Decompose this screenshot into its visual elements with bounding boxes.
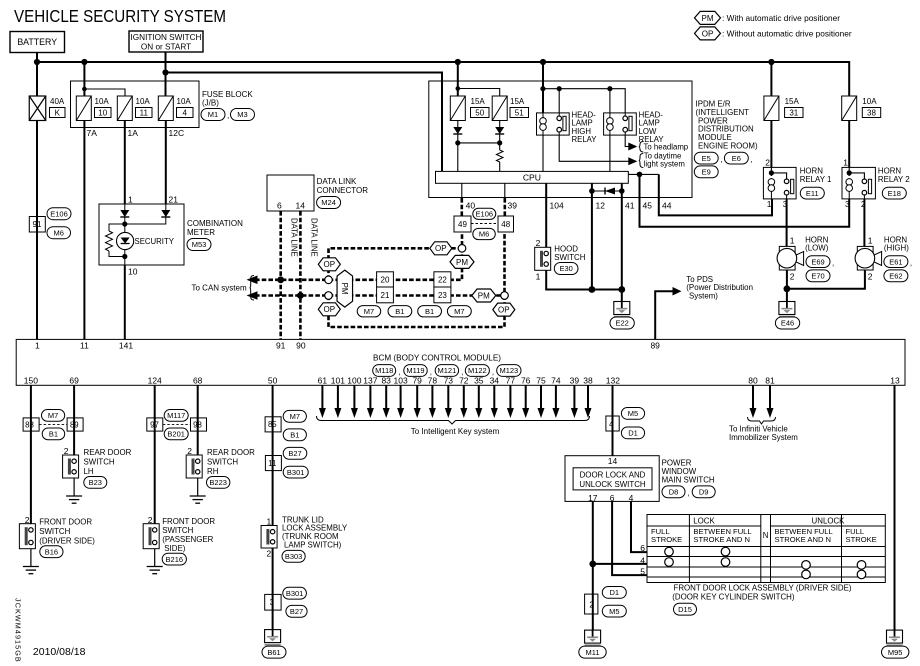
svg-text:To CAN system: To CAN system bbox=[192, 284, 247, 293]
svg-text:137: 137 bbox=[363, 375, 377, 385]
connector labels M7 B1 B1 M7 bbox=[357, 306, 381, 317]
svg-text:77: 77 bbox=[506, 375, 516, 385]
ground front door switch driver bbox=[23, 566, 39, 568]
svg-text:CONNECTOR: CONNECTOR bbox=[317, 186, 369, 195]
wire low relay contact to headlamp arrow bbox=[625, 135, 630, 146]
bracket to intelligent key system bbox=[317, 416, 590, 424]
ground front door switch passenger bbox=[147, 566, 163, 568]
wire rear door switch LH to ground bbox=[73, 478, 75, 496]
CPU box bbox=[436, 171, 629, 183]
svg-text:E70: E70 bbox=[811, 272, 824, 281]
svg-text:RELAY: RELAY bbox=[572, 135, 598, 144]
svg-text:CPU: CPU bbox=[523, 172, 541, 182]
junction bus horn relay 1 feed bbox=[768, 59, 774, 65]
svg-text:M5: M5 bbox=[609, 607, 619, 616]
svg-text:SWITCH: SWITCH bbox=[162, 526, 193, 535]
badge OP on CAN-L bypass bbox=[318, 303, 340, 316]
fuse block J/B box bbox=[71, 81, 200, 128]
svg-text:2: 2 bbox=[266, 549, 271, 559]
wire BCM pin 68 to rear door switch RH bbox=[197, 385, 199, 455]
svg-text:80: 80 bbox=[748, 375, 758, 385]
svg-text:PM: PM bbox=[456, 258, 468, 267]
wire ignition to bus2 and fuse 4 bbox=[165, 52, 167, 96]
svg-text:M5: M5 bbox=[628, 409, 638, 418]
svg-text:E5: E5 bbox=[702, 154, 711, 163]
wire CPU pin 12 to ground rail bbox=[591, 183, 593, 289]
wire BCM pin 124 to front door switch passenger bbox=[154, 385, 156, 523]
svg-text:M117: M117 bbox=[167, 411, 185, 420]
svg-text:103: 103 bbox=[394, 375, 408, 385]
badge OP on CAN-H bypass bbox=[318, 258, 340, 271]
connector box 88 bbox=[23, 418, 39, 431]
svg-text:D1: D1 bbox=[610, 588, 620, 597]
svg-text:4: 4 bbox=[629, 493, 634, 503]
svg-text:10A: 10A bbox=[862, 97, 877, 106]
fuse 38 10A bbox=[842, 96, 857, 121]
svg-text:OP: OP bbox=[435, 244, 447, 253]
svg-text:SWITCH: SWITCH bbox=[84, 458, 115, 467]
connector box 4 bbox=[606, 416, 619, 431]
svg-text:10: 10 bbox=[98, 108, 107, 117]
svg-text:,: , bbox=[832, 259, 834, 268]
svg-text:SWITCH: SWITCH bbox=[207, 458, 238, 467]
svg-text:M7: M7 bbox=[290, 412, 300, 421]
svg-text:97: 97 bbox=[150, 421, 159, 430]
resistor in IPDM bbox=[496, 150, 503, 162]
junction security LED cathode bbox=[122, 254, 127, 259]
svg-text:To Intelligent Key system: To Intelligent Key system bbox=[411, 427, 500, 436]
svg-text:PM: PM bbox=[478, 291, 490, 300]
connector box 49 bbox=[454, 216, 471, 232]
svg-text:RH: RH bbox=[207, 467, 219, 476]
svg-text:(DOOR KEY CYLINDER SWITCH): (DOOR KEY CYLINDER SWITCH) bbox=[672, 593, 795, 602]
svg-text:38: 38 bbox=[583, 375, 593, 385]
ground E46 bbox=[779, 302, 795, 315]
legend badge PM bbox=[695, 11, 721, 24]
fuse 10 10A bbox=[76, 96, 91, 121]
svg-text:DATA LINE: DATA LINE bbox=[290, 218, 299, 257]
svg-text:2010/08/18: 2010/08/18 bbox=[33, 646, 86, 658]
svg-text:10A: 10A bbox=[177, 97, 192, 106]
svg-text:PM: PM bbox=[702, 14, 714, 23]
svg-text:89: 89 bbox=[70, 421, 79, 430]
svg-text:E22: E22 bbox=[615, 319, 628, 328]
svg-text:E61: E61 bbox=[889, 257, 902, 266]
svg-text:12: 12 bbox=[596, 201, 606, 211]
svg-text:STROKE: STROKE bbox=[651, 535, 682, 544]
svg-text:48: 48 bbox=[501, 220, 510, 229]
svg-text:31: 31 bbox=[789, 108, 798, 117]
connector box 48 bbox=[498, 216, 514, 232]
connector box 20 bbox=[377, 272, 394, 287]
svg-text:B223: B223 bbox=[209, 478, 227, 487]
svg-text:METER: METER bbox=[187, 228, 215, 237]
connector box 2 bbox=[585, 594, 598, 614]
wire door lock pin 17 to table row 4 and ground bbox=[592, 501, 594, 594]
svg-text:E18: E18 bbox=[888, 189, 901, 198]
svg-text:21: 21 bbox=[169, 195, 179, 205]
svg-text:76: 76 bbox=[521, 375, 531, 385]
brace to daytime light system bbox=[639, 154, 644, 168]
svg-text:3: 3 bbox=[845, 199, 850, 209]
svg-text:21: 21 bbox=[381, 291, 390, 300]
svg-text:M11: M11 bbox=[585, 648, 599, 657]
svg-text:M6: M6 bbox=[54, 228, 64, 237]
wire fuse 10 to BCM pin 11 bbox=[83, 121, 85, 340]
svg-text:DOOR LOCK AND: DOOR LOCK AND bbox=[580, 471, 646, 480]
horn relay 1 box E11 bbox=[763, 167, 796, 199]
svg-text:N: N bbox=[763, 531, 769, 540]
wire horn high to ground rail bbox=[787, 270, 865, 289]
badge OP on bypass top right bbox=[430, 242, 452, 255]
svg-text:50: 50 bbox=[475, 108, 484, 117]
wire front door switch driver to ground bbox=[30, 549, 32, 567]
junction bus fuse block feed bbox=[81, 59, 87, 65]
svg-text:E62: E62 bbox=[889, 272, 902, 281]
brace to headlamp bbox=[639, 142, 644, 153]
svg-text:15A: 15A bbox=[785, 97, 800, 106]
svg-text:1A: 1A bbox=[128, 128, 139, 138]
ground rear door switch LH bbox=[66, 495, 82, 497]
wire CPU pin 41 to ground rail bbox=[621, 183, 623, 289]
svg-text:: Without automatic drive posi: : Without automatic drive positioner bbox=[722, 29, 852, 39]
svg-text:FRONT DOOR: FRONT DOOR bbox=[162, 517, 215, 526]
svg-text:10: 10 bbox=[128, 267, 138, 277]
svg-text:REAR DOOR: REAR DOOR bbox=[84, 448, 132, 457]
svg-text:(DRIVER SIDE): (DRIVER SIDE) bbox=[39, 537, 95, 546]
wire horn relay1 contact to horn low bbox=[786, 199, 788, 247]
svg-text:BCM (BODY CONTROL MODULE): BCM (BODY CONTROL MODULE) bbox=[373, 354, 501, 363]
svg-text:(J/B): (J/B) bbox=[202, 99, 219, 108]
diode D in combination meter pin1 bbox=[120, 210, 129, 217]
svg-text:79: 79 bbox=[412, 375, 422, 385]
wire door lock pin 4 to table row 6 bbox=[631, 501, 647, 552]
wire fuse 4 to combination meter pin 21 bbox=[165, 121, 167, 205]
svg-text:UNLOCK: UNLOCK bbox=[812, 517, 846, 526]
diode D in combination meter pin21 bbox=[161, 210, 170, 217]
svg-text:72: 72 bbox=[459, 375, 469, 385]
svg-text:4: 4 bbox=[640, 555, 645, 565]
wire trunk lid switch to connector 3 bbox=[272, 548, 274, 594]
svg-text:E69: E69 bbox=[811, 257, 824, 266]
svg-text:2: 2 bbox=[790, 272, 795, 282]
svg-text:1: 1 bbox=[790, 236, 795, 246]
wire BCM pin 69 to rear door switch LH bbox=[73, 385, 75, 455]
connector label D15 bbox=[674, 603, 697, 615]
svg-text:D9: D9 bbox=[699, 488, 709, 497]
svg-text:11: 11 bbox=[80, 341, 89, 351]
CAN-H wire line A to CAN system bbox=[255, 216, 462, 280]
svg-text:39: 39 bbox=[570, 375, 580, 385]
connector box 21 bbox=[377, 287, 394, 303]
svg-text:OP: OP bbox=[702, 29, 714, 38]
junction bus relay rail feed bbox=[540, 59, 546, 65]
relay supply rail in IPDM bbox=[542, 62, 544, 113]
connector box 97 bbox=[147, 418, 163, 431]
junction battery bus bbox=[34, 59, 40, 65]
connector labels E5 E6 E9 bbox=[694, 152, 718, 164]
dashed link 97-98 with labels M117 B201 bbox=[163, 423, 191, 425]
svg-text:M6: M6 bbox=[479, 230, 489, 239]
svg-text:14: 14 bbox=[296, 201, 306, 211]
svg-text:45: 45 bbox=[643, 201, 653, 211]
svg-text:,: , bbox=[910, 259, 912, 268]
svg-text:83: 83 bbox=[381, 375, 391, 385]
svg-text:,: , bbox=[750, 155, 752, 164]
fuse 50 15A bbox=[450, 96, 465, 121]
svg-text:35: 35 bbox=[474, 375, 484, 385]
wire fuse 31 feed bbox=[770, 62, 772, 96]
wire horn low to ground E46 bbox=[786, 270, 788, 302]
svg-text:,: , bbox=[688, 489, 690, 498]
svg-text:M7: M7 bbox=[364, 307, 374, 316]
junction fuse block internal bbox=[82, 87, 87, 92]
svg-text:,: , bbox=[227, 111, 229, 120]
svg-text:1: 1 bbox=[843, 158, 848, 168]
svg-text:23: 23 bbox=[438, 291, 447, 300]
CAN wire DLC pin14 to BCM pin 90 data line bbox=[299, 211, 302, 339]
svg-text:12C: 12C bbox=[169, 128, 185, 138]
svg-text:B303: B303 bbox=[285, 552, 303, 561]
svg-text:124: 124 bbox=[148, 375, 162, 385]
svg-text:M7: M7 bbox=[48, 411, 58, 420]
svg-text:M1: M1 bbox=[208, 110, 218, 119]
svg-text:1: 1 bbox=[536, 272, 541, 282]
svg-text:6: 6 bbox=[277, 201, 282, 211]
to CAN system arrows bbox=[247, 276, 258, 285]
svg-text:50: 50 bbox=[268, 375, 278, 385]
wire pin 44 to horn relay 1 coil bbox=[659, 174, 772, 215]
svg-text:39: 39 bbox=[508, 201, 518, 211]
ground B61 bbox=[265, 630, 281, 643]
wire CPU output to horn relay feeds bbox=[628, 173, 659, 175]
svg-text:D8: D8 bbox=[669, 488, 679, 497]
svg-text:132: 132 bbox=[606, 375, 620, 385]
wire fuse block internal feed bbox=[83, 62, 85, 96]
svg-text:B23: B23 bbox=[89, 478, 102, 487]
svg-text:ENGINE ROOM): ENGINE ROOM) bbox=[698, 142, 758, 151]
ground M11 bbox=[585, 630, 601, 643]
svg-text:68: 68 bbox=[193, 375, 203, 385]
security indicator LED bbox=[117, 232, 134, 249]
fuse 4 10A bbox=[158, 96, 173, 121]
svg-text:49: 49 bbox=[458, 220, 467, 229]
svg-text:51: 51 bbox=[515, 108, 524, 117]
svg-text:40A: 40A bbox=[50, 97, 65, 106]
wire battery bus y62 bbox=[36, 53, 38, 97]
svg-text:M95: M95 bbox=[888, 648, 903, 657]
svg-text:44: 44 bbox=[662, 201, 672, 211]
wire fuse 31 to horn relay 1 pin 2 bbox=[770, 121, 772, 168]
battery B1 box bbox=[10, 32, 65, 53]
resistor R in combination meter bbox=[106, 231, 113, 251]
wire high relay contact to daytime light arrow bbox=[559, 135, 630, 161]
wire 40A fuse to connector 91 to BCM pin 1 bbox=[36, 121, 38, 340]
svg-text:BATTERY: BATTERY bbox=[17, 37, 57, 47]
svg-text:(PASSENGER: (PASSENGER bbox=[162, 535, 213, 544]
svg-text:D15: D15 bbox=[678, 605, 692, 614]
diode under fuse 51 bbox=[495, 127, 504, 134]
svg-text:91: 91 bbox=[276, 341, 286, 351]
svg-text:M121: M121 bbox=[438, 366, 457, 375]
svg-text:PM: PM bbox=[340, 283, 349, 295]
svg-text:M53: M53 bbox=[192, 240, 207, 249]
ground rear door switch RH bbox=[190, 495, 206, 497]
svg-text:41: 41 bbox=[625, 201, 635, 211]
svg-text:1: 1 bbox=[35, 341, 40, 351]
CAN wire DLC pin6 to BCM pin 91 data line bbox=[279, 211, 282, 339]
door lock and unlock switch outer box bbox=[565, 456, 659, 502]
hood switch E30 bbox=[535, 247, 551, 270]
dashed link 49-48 bbox=[471, 223, 498, 225]
svg-text:15A: 15A bbox=[471, 97, 486, 106]
svg-text:B1: B1 bbox=[49, 430, 58, 439]
ground M95 bbox=[887, 630, 903, 643]
svg-text:M24: M24 bbox=[321, 198, 336, 207]
headlamp low relay box bbox=[604, 113, 637, 135]
svg-text:7A: 7A bbox=[87, 128, 98, 138]
svg-text:104: 104 bbox=[550, 201, 564, 211]
wire connector 3 to ground B61 bbox=[272, 610, 274, 630]
svg-text:13: 13 bbox=[890, 375, 900, 385]
badge OP on CAN-L bypass right bbox=[493, 303, 515, 316]
svg-text:61: 61 bbox=[318, 375, 328, 385]
svg-text:M7: M7 bbox=[454, 307, 464, 316]
CAN OP bypass top wire bbox=[329, 248, 463, 279]
connector labels E106 M6 mid bbox=[473, 208, 496, 219]
node CAN-H join circle right bbox=[458, 245, 466, 253]
bracket immobilizer bbox=[748, 417, 776, 424]
combination meter M53 box bbox=[99, 204, 184, 265]
svg-text:B216: B216 bbox=[166, 555, 184, 564]
svg-text:FRONT DOOR: FRONT DOOR bbox=[39, 518, 92, 527]
svg-text:17: 17 bbox=[588, 493, 598, 503]
svg-text:B27: B27 bbox=[290, 607, 303, 616]
svg-text:RELAY 1: RELAY 1 bbox=[800, 175, 832, 184]
fuse 51 15A bbox=[492, 96, 507, 121]
svg-text:73: 73 bbox=[444, 375, 454, 385]
wire CPU pin 39 to connector 48 bbox=[504, 183, 506, 198]
svg-text:11: 11 bbox=[268, 459, 276, 468]
svg-text:141: 141 bbox=[119, 341, 133, 351]
wire BCM pin 13 to ground M95 bbox=[894, 385, 896, 630]
BCM connector labels M118 M119 M121 M122 M123 bbox=[373, 365, 396, 377]
svg-text:88: 88 bbox=[25, 421, 34, 430]
connector box 85 bbox=[265, 417, 281, 432]
svg-text:(LOW): (LOW) bbox=[805, 244, 829, 253]
wire relay coil outputs to CPU bbox=[542, 135, 544, 171]
badge PM on CAN-L right bbox=[472, 289, 496, 302]
wire BCM pin 150 to front door switch driver bbox=[30, 385, 32, 523]
junction ignition bus bbox=[162, 69, 168, 75]
wire ignition bus y72.5 to CPU bbox=[166, 73, 443, 172]
svg-text:JCKWM4915GB: JCKWM4915GB bbox=[13, 598, 22, 663]
svg-text:STROKE AND N: STROKE AND N bbox=[693, 535, 750, 544]
svg-text:5: 5 bbox=[640, 566, 645, 576]
svg-text:98: 98 bbox=[193, 421, 202, 430]
svg-text:ON or START: ON or START bbox=[141, 42, 191, 51]
connector box 98 bbox=[191, 418, 207, 431]
ground E22 bbox=[621, 290, 623, 303]
wire CPU pin 104 to hood switch bbox=[545, 183, 547, 247]
badge PM on CAN-H right bbox=[450, 255, 474, 268]
svg-text:90: 90 bbox=[296, 341, 306, 351]
svg-text:38: 38 bbox=[867, 108, 876, 117]
svg-text:RELAY 2: RELAY 2 bbox=[878, 175, 910, 184]
wire rear door switch RH to ground bbox=[197, 478, 199, 496]
svg-text:K: K bbox=[55, 108, 61, 117]
svg-text:E106: E106 bbox=[476, 210, 494, 219]
svg-text:M119: M119 bbox=[406, 366, 424, 375]
connector box 3 bbox=[265, 594, 281, 610]
svg-text:2: 2 bbox=[765, 158, 770, 168]
svg-text:20: 20 bbox=[381, 275, 390, 284]
wire CPU pin 40 to connector 49 bbox=[461, 183, 463, 198]
svg-text:1: 1 bbox=[868, 236, 873, 246]
key cylinder switch table bbox=[647, 515, 885, 583]
svg-text:2: 2 bbox=[536, 238, 541, 248]
svg-text:E106: E106 bbox=[50, 209, 68, 218]
junction horn ground bbox=[784, 285, 791, 292]
svg-text:1: 1 bbox=[767, 199, 772, 209]
svg-text:SWITCH: SWITCH bbox=[39, 527, 70, 536]
svg-text:15A: 15A bbox=[510, 97, 525, 106]
diode under fuse 50 bbox=[453, 127, 462, 134]
wire fuse51 to diode to resistor bbox=[499, 121, 501, 128]
junction CAN-H data line bbox=[277, 276, 284, 283]
svg-text:OP: OP bbox=[324, 260, 336, 269]
svg-text:IGNITION SWITCH: IGNITION SWITCH bbox=[131, 33, 202, 42]
CAN-L wire line B to CAN system bbox=[255, 294, 505, 297]
wire front door switch passenger to ground bbox=[154, 549, 156, 567]
connector box 91 E106/M6 bbox=[29, 217, 45, 233]
svg-text:SECURITY: SECURITY bbox=[135, 237, 175, 246]
svg-text:M123: M123 bbox=[499, 366, 518, 375]
wire pin 45 to horn relay 2 coil bbox=[640, 174, 850, 226]
svg-text:M3: M3 bbox=[237, 110, 247, 119]
svg-text:B27: B27 bbox=[288, 449, 301, 458]
svg-text:2: 2 bbox=[868, 272, 873, 282]
svg-text:40: 40 bbox=[466, 201, 476, 211]
connector box 23 bbox=[434, 287, 451, 303]
connector box 89 bbox=[67, 418, 83, 431]
svg-text:34: 34 bbox=[490, 375, 500, 385]
legend badge OP bbox=[695, 27, 721, 40]
svg-text:VEHICLE SECURITY SYSTEM: VEHICLE SECURITY SYSTEM bbox=[14, 6, 226, 26]
IPDM E/R outer box bbox=[429, 81, 692, 198]
svg-text:2: 2 bbox=[589, 600, 593, 609]
svg-text:LH: LH bbox=[84, 467, 94, 476]
svg-text:6: 6 bbox=[640, 543, 645, 553]
combination meter internal wires bbox=[124, 204, 126, 210]
svg-text:E9: E9 bbox=[702, 168, 711, 177]
svg-text:(HIGH): (HIGH) bbox=[884, 244, 909, 253]
wire connector 2 to ground M11 bbox=[592, 614, 594, 631]
svg-text:B301: B301 bbox=[286, 589, 304, 598]
svg-text:10A: 10A bbox=[136, 97, 151, 106]
svg-text:B1: B1 bbox=[290, 431, 299, 440]
svg-text:M118: M118 bbox=[375, 366, 393, 375]
svg-text:STROKE: STROKE bbox=[846, 535, 877, 544]
junction bus IPDM fuse feed bbox=[455, 59, 461, 65]
svg-text:FRONT DOOR LOCK ASSEMBLY (DRIV: FRONT DOOR LOCK ASSEMBLY (DRIVER SIDE) bbox=[674, 584, 852, 593]
svg-text:B16: B16 bbox=[45, 547, 58, 556]
wire horn relay2 contact to horn high bbox=[863, 199, 865, 247]
wire hood switch to ground rail bbox=[546, 270, 622, 289]
node CAN-L join circle right bbox=[501, 292, 509, 300]
door lock and unlock switch inner box bbox=[573, 468, 652, 490]
headlamp high relay box bbox=[537, 113, 570, 135]
